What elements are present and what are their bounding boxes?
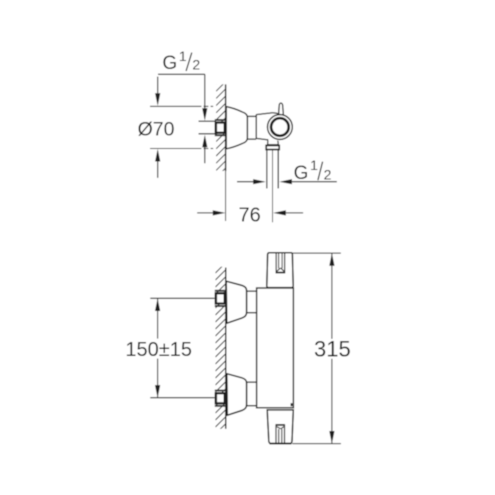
svg-text:76: 76 bbox=[239, 204, 261, 226]
svg-text:315: 315 bbox=[314, 336, 351, 361]
svg-text:2: 2 bbox=[324, 166, 332, 182]
svg-text:G: G bbox=[294, 163, 309, 184]
svg-text:1: 1 bbox=[179, 48, 187, 64]
svg-text:1: 1 bbox=[310, 157, 318, 173]
svg-text:G: G bbox=[162, 53, 177, 74]
svg-text:Ø70: Ø70 bbox=[138, 118, 175, 140]
svg-text:2: 2 bbox=[192, 56, 200, 72]
svg-text:150±15: 150±15 bbox=[125, 339, 192, 361]
